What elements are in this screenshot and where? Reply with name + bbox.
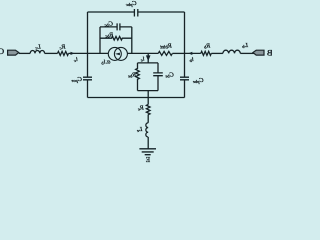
capacitor Cbe plates — [153, 73, 163, 76]
label Cpbc — [126, 0, 137, 7]
inner feedback cell left edge — [99, 27, 101, 54]
wire cell to ground rail — [147, 91, 149, 98]
box right edge upper — [184, 12, 186, 77]
svg-text:E: E — [145, 156, 150, 163]
inner feedback cell right edge — [131, 27, 133, 54]
Rbe/Cbe cell bottom edge — [138, 90, 159, 92]
svg-text:Lc: Lc — [35, 43, 42, 50]
svg-text:Re: Re — [138, 104, 145, 111]
label Cbc — [105, 20, 114, 27]
wire current source to node b' — [127, 52, 158, 54]
node C port label — [0, 46, 4, 56]
svg-text:ie: ie — [141, 56, 145, 63]
wire Lc to Rc — [45, 52, 58, 54]
resistor Rbe (left branch) — [136, 63, 140, 91]
ground symbol — [139, 149, 156, 155]
svg-text:C: C — [0, 46, 4, 56]
label alpha ib — [101, 58, 111, 65]
capacitor Cpbc plates — [134, 9, 137, 17]
wire node b' down with emitter current — [147, 53, 149, 63]
label Lb — [241, 42, 249, 49]
label Cpce — [72, 76, 83, 83]
label ic — [74, 56, 78, 63]
svg-text:ic: ic — [74, 56, 78, 63]
current arrow ie — [146, 55, 151, 61]
inner cell top wire — [100, 26, 132, 28]
svg-text:Rc: Rc — [60, 43, 67, 50]
label ie — [141, 56, 145, 63]
svg-text:Lb: Lb — [241, 42, 249, 49]
port C terminal — [8, 50, 19, 55]
svg-text:Rbe: Rbe — [128, 72, 137, 79]
wire Rbint to node2 — [172, 52, 184, 54]
box right edge lower — [184, 80, 186, 97]
label Rbe — [128, 72, 137, 79]
svg-text:Le: Le — [137, 126, 144, 133]
wire Lb to port B — [240, 52, 255, 54]
svg-text:Rbc: Rbc — [105, 31, 114, 38]
label Re — [138, 104, 145, 111]
ground rail (bottom wire) — [88, 97, 185, 99]
capacitor Cpbe plates — [180, 77, 189, 80]
label Rbc — [105, 31, 114, 38]
svg-text:Cpce: Cpce — [72, 76, 83, 83]
current arrow ic — [71, 52, 75, 55]
label Rbint — [160, 43, 173, 51]
resistor Rbc branch — [100, 36, 132, 40]
port B terminal — [253, 50, 264, 55]
wire Rb to Lb — [211, 52, 223, 54]
Rbe/Cbe cell top edge — [138, 62, 159, 64]
wire ground rail down to Re — [147, 98, 149, 105]
svg-text:α.ib: α.ib — [101, 58, 111, 65]
svg-text:Cpbe: Cpbe — [193, 77, 204, 84]
svg-text:Rb: Rb — [203, 42, 211, 49]
capacitor Cpce plates — [83, 77, 92, 80]
current arrow ib — [188, 52, 192, 55]
inductor Lb — [223, 50, 240, 53]
label Cbe — [165, 71, 174, 78]
current source circles — [108, 47, 121, 60]
label Cpbe — [193, 77, 204, 84]
wire node1 to current source — [88, 52, 109, 54]
label E — [145, 156, 150, 164]
capacitor Cbe (right branch) — [157, 63, 159, 91]
box top edge — [88, 11, 185, 13]
resistor Re — [146, 105, 150, 115]
resistor Rb — [201, 51, 212, 55]
label ib — [189, 56, 194, 63]
wire Rc to node1 — [69, 52, 88, 54]
box left edge lower — [87, 80, 89, 97]
resistor Rbint — [158, 51, 172, 55]
svg-text:Cbc: Cbc — [105, 20, 114, 27]
current source inner arrow — [115, 53, 120, 56]
wire port C to Lc — [19, 52, 30, 54]
inductor Le — [146, 123, 148, 137]
svg-text:B: B — [267, 48, 272, 58]
label Le — [137, 126, 144, 133]
label Lc — [35, 43, 42, 50]
box left edge upper — [87, 12, 89, 77]
svg-text:Cpbc: Cpbc — [126, 0, 137, 7]
label Rc — [60, 43, 67, 50]
wire Re to Le — [147, 115, 149, 123]
node B port label — [267, 48, 273, 58]
wire Le to ground — [147, 137, 149, 149]
capacitor Cbc plates — [117, 23, 120, 30]
inductor Lc — [30, 50, 44, 53]
svg-text:Cbe: Cbe — [165, 71, 174, 78]
wire node2 to Rb — [185, 52, 201, 54]
label Rb — [203, 42, 211, 49]
resistor Rc — [58, 51, 69, 55]
